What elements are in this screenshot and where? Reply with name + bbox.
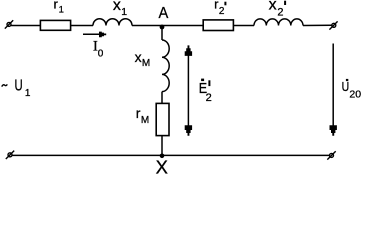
wire r2' to x2' [234,25,254,27]
terminal bottom-right [327,151,335,159]
svg-text:x: x [113,0,121,14]
resistor r1 [40,20,70,30]
label rM [136,105,149,126]
svg-text:1: 1 [59,5,64,16]
voltage arrow U20 [330,44,337,136]
svg-text:U: U [15,78,23,95]
terminal bottom-left [6,151,14,159]
wire rM to bottom [161,136,163,155]
svg-text:X: X [156,158,168,175]
wire r1 to x1 [71,25,93,27]
svg-text:1: 1 [25,88,31,99]
resistor r2' [203,20,233,31]
label x2' [269,0,286,18]
bottom wire [12,154,330,156]
svg-text:1: 1 [121,6,127,18]
wire top: terminal to r1 [11,25,40,27]
svg-text:M: M [141,115,149,126]
node X junction dot [160,154,165,159]
wire x2' to right terminal [303,24,332,26]
svg-text:A: A [159,5,169,22]
wire x1 to r2' through node A [132,25,203,27]
terminal top-right [329,21,337,29]
wire xM to rM [161,92,163,103]
label U20 with dot [342,79,362,101]
label x1 [113,0,127,18]
svg-text:2: 2 [206,92,212,104]
inductor xM [162,40,169,92]
terminal top-left [5,20,13,28]
label r2' [214,0,225,17]
svg-text:2: 2 [277,7,283,19]
svg-text:2: 2 [219,6,225,17]
node A junction dot [160,25,165,30]
svg-text:x: x [269,0,277,14]
inductor x1 [93,19,132,26]
svg-text:0: 0 [98,48,104,59]
svg-text:x: x [135,49,142,65]
svg-text:20: 20 [349,88,361,100]
wire node A down to xM [161,27,163,40]
current arrow I0 [83,32,106,38]
label r1 [54,0,64,16]
inductor x2' [254,19,303,26]
svg-text:M: M [142,58,150,69]
resistor rM [156,103,169,135]
voltage arrow E2' (double headed) [185,45,192,135]
label E2' with dot [199,79,212,104]
label I0 [93,39,104,60]
label xM [135,49,151,69]
label ~U1 source [2,78,31,100]
